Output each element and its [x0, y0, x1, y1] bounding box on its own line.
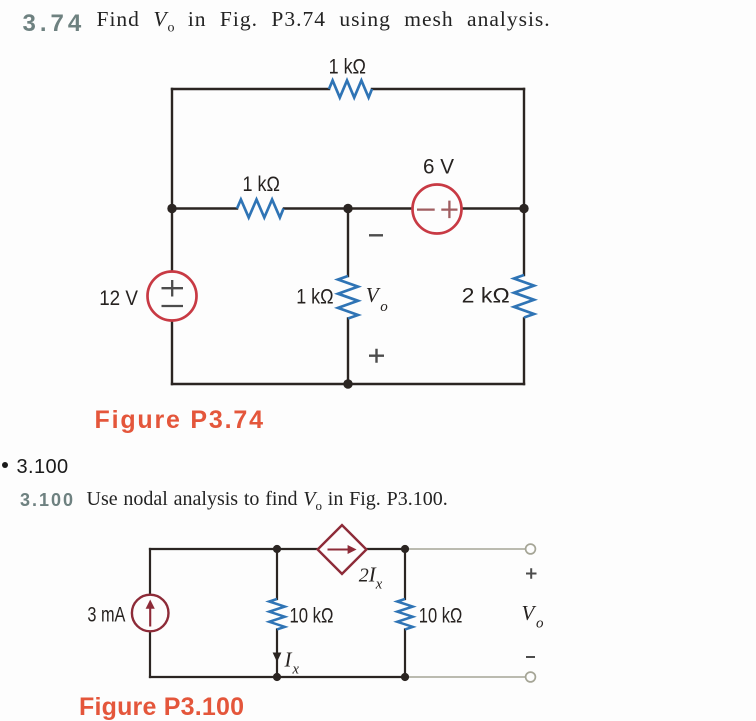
resistor 10 kOhm (branch 1) — [269, 599, 285, 629]
voltage source 6V — [413, 185, 462, 234]
wire: c1 center branch above Vo resistor — [347, 209, 349, 277]
current source 3 mA — [132, 595, 169, 632]
wire: c2 branch1 below 10k — [276, 630, 278, 678]
branch current arrow Ix — [273, 653, 282, 663]
svg-text:I: I — [284, 648, 293, 672]
variable label Vo (output) — [522, 601, 545, 632]
wire: c2 bottom side — [150, 676, 405, 678]
wire: c2 branch2 above 10k — [404, 549, 406, 599]
problem number 3.74 (teal) — [23, 12, 86, 36]
node dot right-middle — [519, 204, 528, 213]
wire: c1 left side below 12V source — [171, 321, 173, 385]
wire: c1 left side above 12V source — [171, 89, 173, 272]
figure caption P3.100 (cut off at bottom edge) — [79, 695, 244, 720]
resistor 2 kOhm (right side) — [514, 275, 534, 318]
wire: c2 top side right of diamond — [366, 548, 405, 550]
wire: c2 left side above 3mA source — [149, 549, 151, 595]
svg-text:2 kΩ: 2 kΩ — [462, 284, 510, 308]
output polarity minus (bottom) — [526, 656, 535, 658]
wire: c1 bottom side — [172, 383, 524, 385]
wire: c1 right side below 2k resistor — [523, 319, 525, 385]
wire: c1 top side left of resistor — [172, 88, 329, 90]
wire: output lead top (light gray) — [405, 548, 525, 550]
wire: c2 top side left of diamond — [150, 548, 318, 550]
output terminal top (open circle) — [526, 544, 536, 554]
variable label Ix — [284, 648, 300, 678]
dependent current source 2Ix (diamond) — [318, 525, 367, 574]
list item 3.100 — [17, 457, 69, 477]
problem number 3.100 (teal) — [20, 491, 75, 509]
wire: c1 center branch below Vo resistor — [347, 319, 349, 385]
node dot bottom-center — [343, 379, 352, 388]
svg-text:x: x — [375, 577, 383, 593]
resistor 10 kOhm (branch 2) — [397, 599, 413, 629]
svg-text:o: o — [380, 299, 388, 315]
wire: output lead bottom (light gray) — [405, 676, 525, 678]
wire: c1 top side right of resistor — [372, 88, 524, 90]
svg-text:6 V: 6 V — [423, 155, 455, 179]
node dot c2 branch2 top — [401, 545, 409, 553]
figure caption P3.74 — [95, 408, 265, 433]
svg-text:1 kΩ: 1 kΩ — [329, 55, 366, 79]
resistor 1 kOhm (top) — [329, 81, 372, 98]
svg-text:12 V: 12 V — [99, 286, 138, 310]
svg-text:3 mA: 3 mA — [87, 603, 125, 627]
wire: c2 branch1 above 10k — [276, 549, 278, 599]
output terminal bottom (open circle) — [526, 672, 536, 682]
svg-text:V: V — [522, 601, 537, 625]
svg-text:2I: 2I — [359, 562, 377, 586]
node dot center-middle — [343, 204, 352, 213]
svg-text:V: V — [366, 283, 381, 307]
resistor 1 kOhm (middle rail) — [237, 200, 283, 218]
problem 3.100 statement — [87, 489, 448, 512]
problem 3.74 statement — [97, 9, 551, 35]
svg-text:1 kΩ: 1 kΩ — [296, 285, 333, 309]
wire: c1 middle rail between resistor and 6V source — [284, 207, 414, 209]
svg-text:10 kΩ: 10 kΩ — [419, 604, 463, 628]
voltage source 12V — [148, 272, 197, 321]
wire: c2 left side below 3mA source — [149, 632, 151, 678]
node dot c2 branch1 top — [273, 545, 281, 553]
svg-text:1 kΩ: 1 kΩ — [243, 172, 280, 196]
svg-text:10 kΩ: 10 kΩ — [290, 604, 334, 628]
wire: c2 branch2 below 10k — [404, 630, 406, 678]
bullet marker — [2, 462, 8, 468]
resistor 1 kOhm (center branch, Vo across it) — [338, 276, 358, 319]
wire: c1 middle rail right of 6V source — [461, 207, 525, 209]
output polarity plus (top) — [526, 568, 537, 578]
svg-text:o: o — [536, 616, 544, 632]
wire: c1 middle rail left of 1k resistor — [172, 207, 237, 209]
variable label 2Ix — [359, 562, 383, 592]
variable label Vo (circuit 1) — [366, 283, 389, 315]
polarity plus (below Vo resistor) — [369, 349, 384, 363]
node dot left-middle — [167, 204, 176, 213]
polarity minus (above Vo resistor) — [369, 234, 383, 236]
node dot c2 branch2 bottom — [401, 673, 409, 681]
svg-text:x: x — [292, 662, 300, 678]
node dot c2 branch1 bottom — [273, 673, 281, 681]
wire: c1 right side above 2k resistor — [523, 89, 525, 275]
